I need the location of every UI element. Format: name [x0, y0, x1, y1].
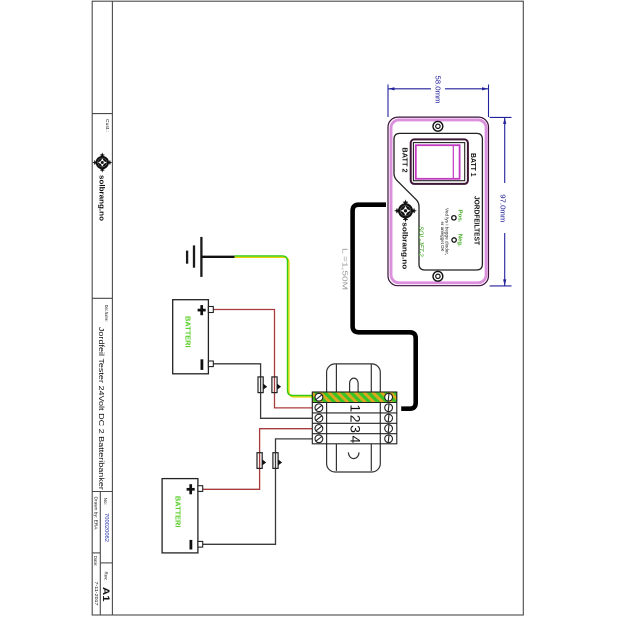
panel screw bottom: [433, 271, 443, 281]
svg-text:BATTERI: BATTERI: [174, 496, 181, 528]
svg-text:A1: A1: [100, 587, 111, 602]
svg-text:7-11-2017: 7-11-2017: [93, 582, 99, 606]
company logo (panel): [394, 199, 417, 222]
svg-text:Drawn by: ERA: Drawn by: ERA: [93, 497, 98, 530]
svg-text:SOL-JFT-2: SOL-JFT-2: [417, 226, 424, 257]
svg-text:BATTERI: BATTERI: [183, 316, 190, 348]
fuse F4 (battery2 minus wire): [273, 453, 282, 469]
svg-text:JORDFEILTEST: JORDFEILTEST: [472, 196, 479, 246]
LED Neg: [452, 238, 456, 242]
earth terminal hatched band: [312, 392, 397, 403]
wire red battery2 plus to terminal 3: [203, 429, 313, 490]
title block divider lines: [92, 1, 112, 615]
svg-text:Cust.:: Cust.:: [105, 119, 110, 132]
svg-text:2: 2: [348, 415, 364, 423]
dimension 97.0mm: [490, 117, 512, 286]
svg-text:4: 4: [348, 436, 364, 444]
svg-text:Neg.: Neg.: [457, 234, 463, 248]
svg-text:97.0mm: 97.0mm: [498, 194, 507, 222]
svg-text:solbrang.no: solbrang.no: [400, 222, 409, 270]
LED Pos: [452, 216, 456, 220]
svg-text:solbrang.no: solbrang.no: [98, 175, 107, 221]
panel face outline: [394, 133, 482, 270]
svg-text:BATT 2: BATT 2: [400, 147, 407, 172]
wire red battery1 plus to terminal 1: [213, 310, 312, 408]
dimension 58.0mm: [388, 85, 489, 118]
terminal screws left column: [315, 393, 323, 442]
cable thick black from panel to terminal: [353, 205, 416, 409]
title block: [92, 1, 112, 615]
ground: [187, 237, 201, 277]
wire earth green/yellow to terminal 0: [235, 256, 313, 397]
fuse F2 (battery1 plus wire): [272, 377, 281, 393]
sheet frame: [92, 1, 523, 615]
svg-text:er anlegget OK: er anlegget OK: [440, 222, 445, 252]
svg-text:58.0mm: 58.0mm: [433, 76, 442, 104]
panel bezel outer: [388, 117, 489, 286]
svg-text:700020082: 700020082: [103, 513, 109, 542]
svg-text:Doc.Name:: Doc.Name:: [104, 305, 109, 322]
fuse F1 (battery1 minus wire): [258, 377, 267, 393]
svg-text:Jordfeil Tester 24Volt DC 2 Ba: Jordfeil Tester 24Volt DC 2 Batteribanke…: [97, 327, 106, 491]
wire black battery1 minus to terminal 2: [213, 364, 312, 419]
company logo (title block): [92, 152, 112, 172]
svg-text:No:: No:: [103, 498, 108, 505]
wire ground lead (black): [201, 256, 234, 258]
fuse F3 (battery2 plus wire): [257, 453, 266, 469]
battery B2: [162, 479, 203, 553]
svg-text:1: 1: [348, 404, 364, 412]
svg-text:L =1,50M: L =1,50M: [341, 248, 348, 290]
panel screw top: [433, 121, 443, 131]
svg-text:Rev:: Rev:: [103, 571, 108, 580]
wire black battery2 minus to terminal 4: [203, 439, 313, 544]
terminal screws right column: [385, 393, 393, 442]
battery B1: [173, 300, 214, 374]
svg-text:3: 3: [348, 425, 364, 433]
svg-text:Pos.: Pos.: [457, 210, 463, 224]
svg-text:Date:: Date:: [93, 556, 98, 567]
switch S1: [411, 139, 468, 184]
connector body (terminal block socket): [327, 364, 381, 472]
terminal strip outline: [312, 392, 397, 444]
svg-text:BATT 1: BATT 1: [469, 153, 476, 177]
